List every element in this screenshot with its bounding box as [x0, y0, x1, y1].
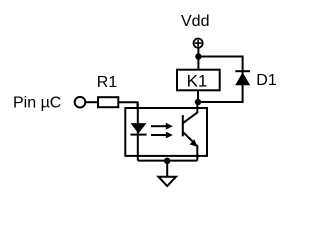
svg-text:R1: R1 — [97, 74, 118, 91]
terminal pin circle — [75, 97, 86, 108]
light arrow 2 — [151, 132, 173, 139]
optocoupler box U1 — [125, 108, 207, 156]
svg-text:Vdd: Vdd — [181, 13, 209, 30]
emitter arrowhead — [190, 139, 198, 147]
LED inside optocoupler — [131, 102, 147, 160]
emitter — [183, 132, 198, 161]
svg-text:K1: K1 — [187, 72, 208, 91]
wire top to D1 — [198, 56, 243, 58]
node junction bottom — [195, 99, 201, 105]
wire pin to R1 — [86, 101, 98, 103]
wire R1 to LED anode — [118, 102, 137, 108]
wire bottom to D1 — [198, 101, 244, 103]
wire K1 bottom to junction — [197, 90, 199, 103]
relay coil K1 box — [177, 70, 220, 91]
collector — [183, 102, 198, 123]
power supply terminal Vdd — [194, 39, 203, 48]
diode D1 — [235, 57, 250, 103]
svg-text:D1: D1 — [256, 72, 277, 89]
base bar — [182, 115, 184, 136]
wire emitter/cathode to ground — [138, 160, 198, 162]
ground — [158, 177, 176, 186]
node junction top — [195, 53, 201, 59]
light arrow 1 — [151, 123, 173, 130]
node junction ground — [164, 158, 170, 164]
svg-text:Pin µC: Pin µC — [13, 95, 61, 112]
resistor R1 box — [98, 97, 118, 107]
phototransistor Q1 — [183, 102, 198, 161]
wire Vdd to K1 top — [197, 48, 199, 69]
wire to ground symbol — [166, 161, 168, 177]
